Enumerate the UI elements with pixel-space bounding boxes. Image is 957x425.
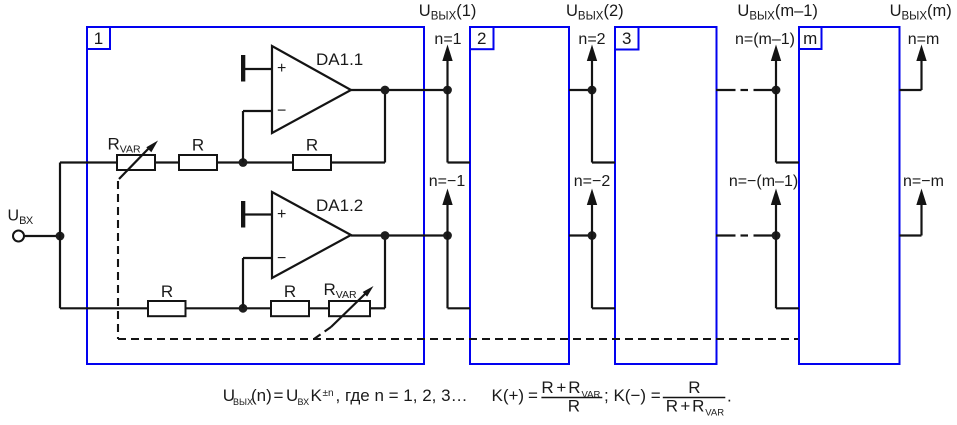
svg-text:m: m	[803, 29, 817, 48]
svg-text:R: R	[666, 397, 678, 416]
svg-text:n=(m–1): n=(m–1)	[735, 31, 795, 48]
svg-text:VAR: VAR	[705, 408, 724, 419]
svg-text:2: 2	[477, 29, 486, 48]
svg-text:R: R	[161, 282, 173, 301]
svg-text:, где n = 1, 2, 3…: , где n = 1, 2, 3…	[336, 386, 468, 405]
svg-text:n=1: n=1	[434, 31, 461, 48]
svg-text:n=m: n=m	[908, 31, 940, 48]
svg-text:3: 3	[622, 29, 631, 48]
svg-text:+: +	[277, 60, 286, 77]
svg-text:R: R	[306, 136, 318, 155]
svg-text:±n: ±n	[323, 388, 334, 399]
svg-text:K(+): K(+)	[492, 386, 525, 405]
svg-text:−: −	[277, 250, 286, 267]
svg-text:R: R	[284, 282, 296, 301]
svg-text:R: R	[568, 378, 580, 397]
svg-text:ВЫХ: ВЫХ	[233, 397, 253, 407]
svg-text:+: +	[556, 378, 566, 397]
svg-text:R: R	[688, 378, 700, 397]
svg-text:−: −	[277, 103, 286, 120]
svg-text:n=−(m–1): n=−(m–1)	[729, 173, 798, 190]
svg-text:DA1.2: DA1.2	[316, 196, 363, 215]
svg-text:R: R	[192, 136, 204, 155]
svg-text:+: +	[680, 397, 690, 416]
svg-text:(n): (n)	[251, 386, 272, 405]
svg-text:=: =	[274, 386, 284, 405]
svg-text:DA1.1: DA1.1	[316, 50, 363, 69]
svg-text:.: .	[727, 387, 732, 406]
svg-text:=: =	[528, 386, 538, 405]
svg-text:R: R	[568, 397, 580, 416]
svg-text:K: K	[311, 386, 323, 405]
svg-text:R: R	[692, 397, 704, 416]
svg-text:R: R	[541, 378, 553, 397]
svg-text:U: U	[286, 386, 298, 405]
svg-text:ВХ: ВХ	[298, 397, 310, 407]
svg-text:+: +	[277, 206, 286, 223]
svg-text:n=−2: n=−2	[574, 173, 611, 190]
svg-text:n=2: n=2	[578, 31, 605, 48]
svg-text:1: 1	[94, 29, 103, 48]
svg-text:n=−m: n=−m	[903, 173, 944, 190]
svg-text:n=−1: n=−1	[429, 173, 466, 190]
svg-text:; K(−) =: ; K(−) =	[604, 386, 661, 405]
svg-text:VAR: VAR	[582, 389, 601, 400]
